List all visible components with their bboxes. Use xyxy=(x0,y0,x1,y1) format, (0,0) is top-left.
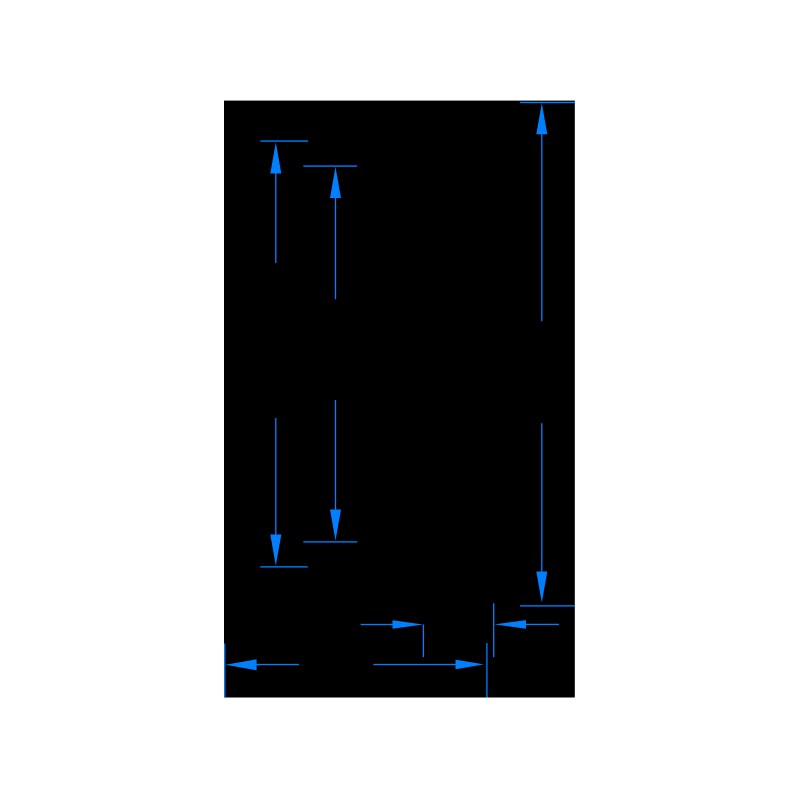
small dimension 2 extension line xyxy=(493,603,494,657)
small dimension 2 stem xyxy=(526,624,559,625)
dimension A bottom tick xyxy=(260,566,307,567)
bottom dimension left stem xyxy=(257,664,299,665)
dimension A upper stem xyxy=(275,173,276,264)
bottom dimension right arrowhead xyxy=(456,660,484,670)
dimension B bottom tick xyxy=(303,541,357,542)
dimension B bottom arrowhead (down) xyxy=(330,510,341,541)
dimension C top tick xyxy=(520,102,575,103)
small dimension 2 arrowhead (left) xyxy=(495,620,527,629)
dimension C top arrowhead (up) xyxy=(536,103,547,134)
bottom dimension left arrowhead xyxy=(225,659,256,670)
panel outline (solid black silhouette) xyxy=(224,101,575,698)
dimension A top tick xyxy=(260,140,308,141)
dimension B upper stem xyxy=(335,197,336,299)
dimension C bottom tick xyxy=(520,605,575,606)
dimension C upper stem xyxy=(541,133,542,321)
dimension C bottom arrowhead (down) xyxy=(536,572,547,603)
dimension C lower stem xyxy=(541,423,542,572)
dimension B top tick xyxy=(303,165,357,166)
dimension A top arrowhead (up) xyxy=(270,142,281,173)
small dimension 1 stem xyxy=(361,624,393,625)
bottom dimension right stem xyxy=(373,664,455,665)
dimension A bottom arrowhead (down) xyxy=(270,535,281,566)
dimension B lower stem xyxy=(335,400,336,510)
small dimension 1 arrowhead (right) xyxy=(393,620,424,629)
dimension A lower stem xyxy=(275,418,276,535)
dimension B top arrowhead (up) xyxy=(330,167,341,198)
bottom dimension right extension line xyxy=(486,643,487,698)
bottom dimension left extension line xyxy=(224,644,225,698)
small dimension 1 extension line xyxy=(423,625,424,658)
